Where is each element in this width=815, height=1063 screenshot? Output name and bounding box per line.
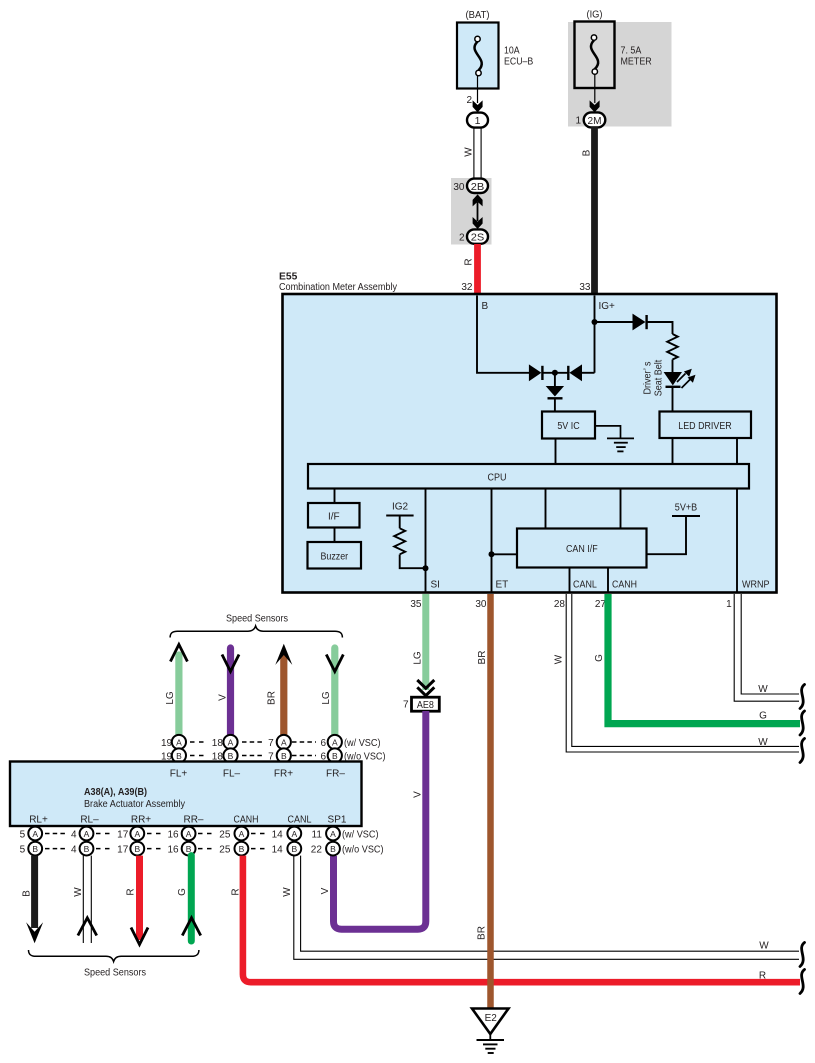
svg-text:A: A — [32, 829, 38, 839]
wire LED DRIVER to CPU (right) — [736, 438, 738, 464]
svg-text:A: A — [228, 738, 234, 748]
svg-text:W: W — [554, 654, 565, 664]
wire IG+ inside box — [594, 296, 596, 373]
svg-text:BR: BR — [477, 926, 488, 940]
wire BR FR+ (sensor, solid arrow up) — [275, 644, 292, 736]
svg-text:35: 35 — [410, 599, 422, 610]
svg-text:16: 16 — [167, 845, 179, 856]
CPU box — [308, 464, 749, 489]
wire CPU to I/F — [334, 489, 336, 504]
wire SI (CPU to pin 35) — [425, 489, 427, 594]
wire IG+ to D3 — [595, 321, 634, 323]
double arrow between 2B and 2S — [473, 194, 483, 229]
wire CPU to CAN I/F (left) — [545, 489, 547, 529]
svg-text:Speed Sensors: Speed Sensors — [84, 968, 146, 979]
svg-text:V: V — [320, 887, 331, 894]
wire D3 to resistor — [647, 322, 673, 334]
wire stub fuse BAT to connector — [477, 76, 479, 104]
svg-text:2: 2 — [466, 95, 472, 106]
svg-text:W: W — [759, 941, 769, 952]
svg-text:CAN I/F: CAN I/F — [566, 544, 598, 555]
svg-text:BR: BR — [267, 691, 278, 705]
wire W (pin 1 WRNP, white) — [734, 594, 799, 701]
svg-text:(w/o VSC): (w/o VSC) — [342, 845, 384, 856]
break symbol CANL — [800, 739, 805, 763]
svg-text:R: R — [126, 888, 137, 895]
wire W RL- (sensor, chevron up) — [78, 856, 97, 943]
svg-text:B: B — [84, 844, 90, 854]
wire LG (pin 35 to AE8) — [422, 594, 429, 690]
wire B (2M to pin 33) — [591, 127, 598, 295]
wire W (BAT to 2B) — [474, 128, 481, 179]
fuse 10A ECU-B (BAT) — [457, 23, 499, 89]
svg-text:B: B — [239, 844, 245, 854]
svg-text:Buzzer: Buzzer — [320, 552, 348, 563]
brake actuator assembly box — [10, 762, 362, 827]
svg-text:Driver’ sSeat Belt: Driver’ sSeat Belt — [643, 360, 665, 397]
junction node — [552, 370, 558, 376]
connector row B (top of brake actuator) — [161, 748, 386, 762]
svg-text:32: 32 — [461, 282, 473, 293]
wire R CANH (to right edge) — [243, 856, 800, 983]
svg-text:17: 17 — [117, 845, 129, 856]
svg-text:B: B — [291, 844, 297, 854]
wire R (2S to pin 32) — [474, 244, 481, 295]
Buzzer box — [308, 542, 362, 569]
wire V FL- (sensor, arrow down) — [222, 648, 239, 736]
wire I/F to Buzzer — [334, 528, 336, 543]
svg-text:B: B — [22, 890, 33, 897]
svg-text:B: B — [134, 844, 140, 854]
brace (bottom speed sensors) — [29, 950, 199, 962]
connector row A (top of brake actuator) — [161, 735, 381, 749]
svg-text:1: 1 — [475, 115, 481, 127]
wire LED to LED DRIVER — [672, 387, 674, 412]
wire resistor to LED — [672, 360, 674, 373]
svg-text:7. 5A: 7. 5A — [621, 46, 642, 57]
brace (top speed sensors) — [170, 626, 342, 638]
double chevron into AE8 — [417, 680, 434, 696]
svg-text:LED DRIVER: LED DRIVER — [678, 421, 731, 432]
svg-text:A: A — [281, 738, 287, 748]
svg-text:SI: SI — [431, 580, 440, 591]
svg-text:25: 25 — [219, 830, 231, 841]
svg-text:5: 5 — [20, 845, 26, 856]
svg-text:B: B — [582, 149, 593, 156]
svg-text:30: 30 — [475, 599, 487, 610]
svg-text:RR–: RR– — [183, 815, 203, 826]
svg-text:25: 25 — [219, 845, 231, 856]
svg-text:2M: 2M — [588, 115, 602, 127]
svg-text:W: W — [73, 887, 84, 897]
svg-text:A: A — [134, 829, 140, 839]
svg-text:5: 5 — [20, 830, 26, 841]
gray background block around IG fuse — [568, 22, 672, 127]
connector AE8 — [412, 697, 440, 711]
wire V (AE8 down, across, to SP1) — [334, 711, 426, 929]
svg-text:18: 18 — [212, 738, 224, 749]
svg-text:5V IC: 5V IC — [557, 421, 579, 432]
svg-text:33: 33 — [579, 282, 591, 293]
wire BR (pin 30 to E2) — [487, 594, 494, 1008]
5V+B rail — [647, 516, 701, 554]
wire W CANL (to right edge) — [294, 856, 799, 960]
svg-text:22: 22 — [311, 845, 323, 856]
svg-text:LG: LG — [165, 691, 176, 705]
wire B RL+ (sensor, solid arrow down) — [26, 856, 43, 944]
svg-text:RR+: RR+ — [131, 815, 151, 826]
fuse 7.5A METER (IG) — [575, 22, 615, 89]
svg-text:B: B — [281, 751, 287, 761]
wire ET to CAN I/F — [492, 553, 518, 555]
svg-text:LG: LG — [321, 691, 332, 705]
connector row B (bottom of brake actuator) — [20, 842, 384, 856]
svg-text:B: B — [32, 844, 38, 854]
junction node on SI — [423, 565, 429, 571]
IG2 rail and resistor — [386, 516, 425, 569]
wire WRNP (CPU to pin 1) — [736, 489, 738, 594]
break symbol G — [800, 711, 805, 735]
wire CANL (CAN I/F to pin 28) — [569, 568, 571, 594]
svg-text:Speed Sensors: Speed Sensors — [226, 614, 288, 625]
ground E2 — [472, 1009, 509, 1054]
svg-text:A: A — [84, 829, 90, 839]
resistor (seat belt LED series) — [667, 334, 678, 360]
svg-text:SP1: SP1 — [328, 815, 347, 826]
svg-text:CANL: CANL — [573, 580, 597, 591]
5V IC box — [542, 412, 595, 439]
svg-text:6: 6 — [320, 738, 326, 749]
svg-text:V: V — [218, 694, 229, 701]
svg-text:A: A — [239, 829, 245, 839]
svg-text:RL–: RL– — [80, 815, 99, 826]
wire W (pin 28 CANL, white) — [566, 594, 799, 752]
arrow into connector 2M — [590, 100, 600, 112]
svg-text:4: 4 — [71, 830, 77, 841]
svg-text:G: G — [594, 654, 605, 662]
svg-text:B: B — [176, 751, 182, 761]
svg-text:5V+B: 5V+B — [675, 503, 698, 514]
LED DRIVER box — [660, 412, 752, 439]
wire D1 to D2 — [542, 372, 568, 374]
svg-text:FR+: FR+ — [274, 769, 293, 780]
svg-text:B: B — [332, 751, 338, 761]
diode D3 (pointing right) — [633, 314, 647, 331]
svg-text:(w/ VSC): (w/ VSC) — [344, 738, 381, 749]
arrow into connector 1 — [473, 100, 483, 112]
break symbol W — [800, 943, 805, 967]
svg-text:2S: 2S — [471, 232, 485, 244]
svg-text:W: W — [758, 737, 768, 748]
svg-text:A: A — [176, 738, 182, 748]
svg-text:CANH: CANH — [234, 815, 259, 826]
svg-text:1: 1 — [575, 116, 581, 127]
wire ET (CPU to pin 30) — [491, 489, 493, 594]
svg-text:7: 7 — [403, 700, 409, 711]
svg-text:ECU–B: ECU–B — [504, 57, 534, 68]
svg-text:19: 19 — [161, 738, 173, 749]
svg-text:CPU: CPU — [488, 473, 507, 484]
svg-text:14: 14 — [272, 845, 284, 856]
svg-text:CANL: CANL — [288, 815, 312, 826]
svg-text:(IG): (IG) — [587, 9, 603, 21]
wire LG FR- (sensor, arrow down) — [326, 648, 343, 736]
svg-text:IG+: IG+ — [599, 301, 616, 312]
svg-text:G: G — [759, 711, 767, 722]
svg-text:B: B — [482, 301, 489, 312]
svg-text:W: W — [464, 147, 475, 157]
I/F box — [308, 503, 360, 528]
wire R RR+ (sensor, chevron down) — [131, 856, 148, 945]
svg-text:W: W — [758, 684, 768, 695]
svg-text:7: 7 — [268, 738, 274, 749]
wire B inside box — [477, 296, 529, 373]
break symbol R — [800, 970, 805, 994]
diode D1 (pointing right) — [529, 364, 543, 381]
svg-text:30: 30 — [453, 182, 465, 193]
svg-text:R: R — [231, 888, 242, 895]
svg-text:28: 28 — [554, 599, 566, 610]
svg-text:FL+: FL+ — [170, 769, 188, 780]
svg-text:10A: 10A — [504, 46, 520, 57]
wire G (pin 27 CANH, green) — [608, 594, 800, 724]
svg-text:B: B — [330, 844, 336, 854]
svg-text:I/F: I/F — [328, 512, 340, 523]
svg-text:A38(A), A39(B): A38(A), A39(B) — [84, 787, 147, 798]
svg-text:14: 14 — [272, 830, 284, 841]
svg-text:E2: E2 — [485, 1013, 498, 1024]
svg-text:2B: 2B — [471, 181, 485, 193]
svg-text:G: G — [177, 888, 188, 896]
wire LED DRIVER to CPU (left) — [672, 438, 674, 464]
combination meter assembly box E55 — [283, 294, 777, 593]
svg-text:RL+: RL+ — [29, 815, 48, 826]
connector 2S — [467, 229, 488, 243]
svg-text:A: A — [291, 829, 297, 839]
svg-text:Brake Actuator Assembly: Brake Actuator Assembly — [84, 799, 185, 810]
CAN I/F box — [517, 529, 647, 568]
connector row A (bottom of brake actuator) — [20, 827, 379, 841]
wire CPU to CAN I/F (right) — [620, 489, 622, 529]
diode D4 (pointing down into 5V IC) — [546, 373, 564, 412]
svg-text:2: 2 — [459, 233, 465, 244]
break symbol WRNP — [800, 685, 805, 709]
connector 2B — [467, 179, 488, 193]
svg-text:16: 16 — [167, 830, 179, 841]
svg-text:ET: ET — [496, 580, 509, 591]
svg-text:(BAT): (BAT) — [466, 9, 490, 21]
svg-text:R: R — [759, 971, 766, 982]
wire LG FL+ (sensor, arrow up) — [170, 645, 187, 736]
wire 5V IC to CPU — [555, 439, 557, 465]
svg-text:WRNP: WRNP — [742, 580, 770, 591]
svg-text:E55: E55 — [279, 272, 298, 283]
junction node on ET — [489, 551, 495, 557]
svg-text:4: 4 — [71, 845, 77, 856]
svg-text:CANH: CANH — [612, 580, 637, 591]
svg-text:LG: LG — [413, 651, 424, 665]
svg-text:A: A — [186, 829, 192, 839]
LED driver's seat belt indicator — [664, 369, 696, 388]
svg-text:R: R — [464, 258, 475, 265]
junction node IG+ — [592, 319, 598, 325]
svg-text:A: A — [330, 829, 336, 839]
svg-text:AE8: AE8 — [417, 700, 434, 711]
wire G RR- (sensor, chevron up) — [182, 856, 200, 941]
connector 2M — [584, 112, 606, 127]
wire stub fuse IG to connector 2M — [594, 74, 596, 103]
svg-text:FL–: FL– — [223, 769, 241, 780]
diode D2 (pointing left) — [568, 364, 594, 381]
ground (5V IC) — [595, 426, 634, 452]
svg-text:11: 11 — [312, 830, 323, 841]
svg-text:W: W — [282, 887, 293, 897]
connector 1 — [467, 113, 488, 128]
svg-text:B: B — [228, 751, 234, 761]
svg-text:1: 1 — [726, 599, 732, 610]
svg-text:A: A — [332, 738, 338, 748]
svg-text:IG2: IG2 — [392, 502, 409, 513]
gray background block 2B/2S — [451, 178, 492, 245]
svg-text:BR: BR — [477, 651, 488, 665]
svg-text:FR–: FR– — [326, 769, 345, 780]
svg-text:METER: METER — [621, 57, 652, 68]
svg-text:Combination Meter Assembly: Combination Meter Assembly — [279, 282, 397, 293]
svg-text:17: 17 — [117, 830, 129, 841]
wire CANH (CAN I/F to pin 27) — [607, 568, 609, 594]
svg-text:V: V — [413, 791, 424, 798]
svg-text:(w/ VSC): (w/ VSC) — [342, 830, 379, 841]
